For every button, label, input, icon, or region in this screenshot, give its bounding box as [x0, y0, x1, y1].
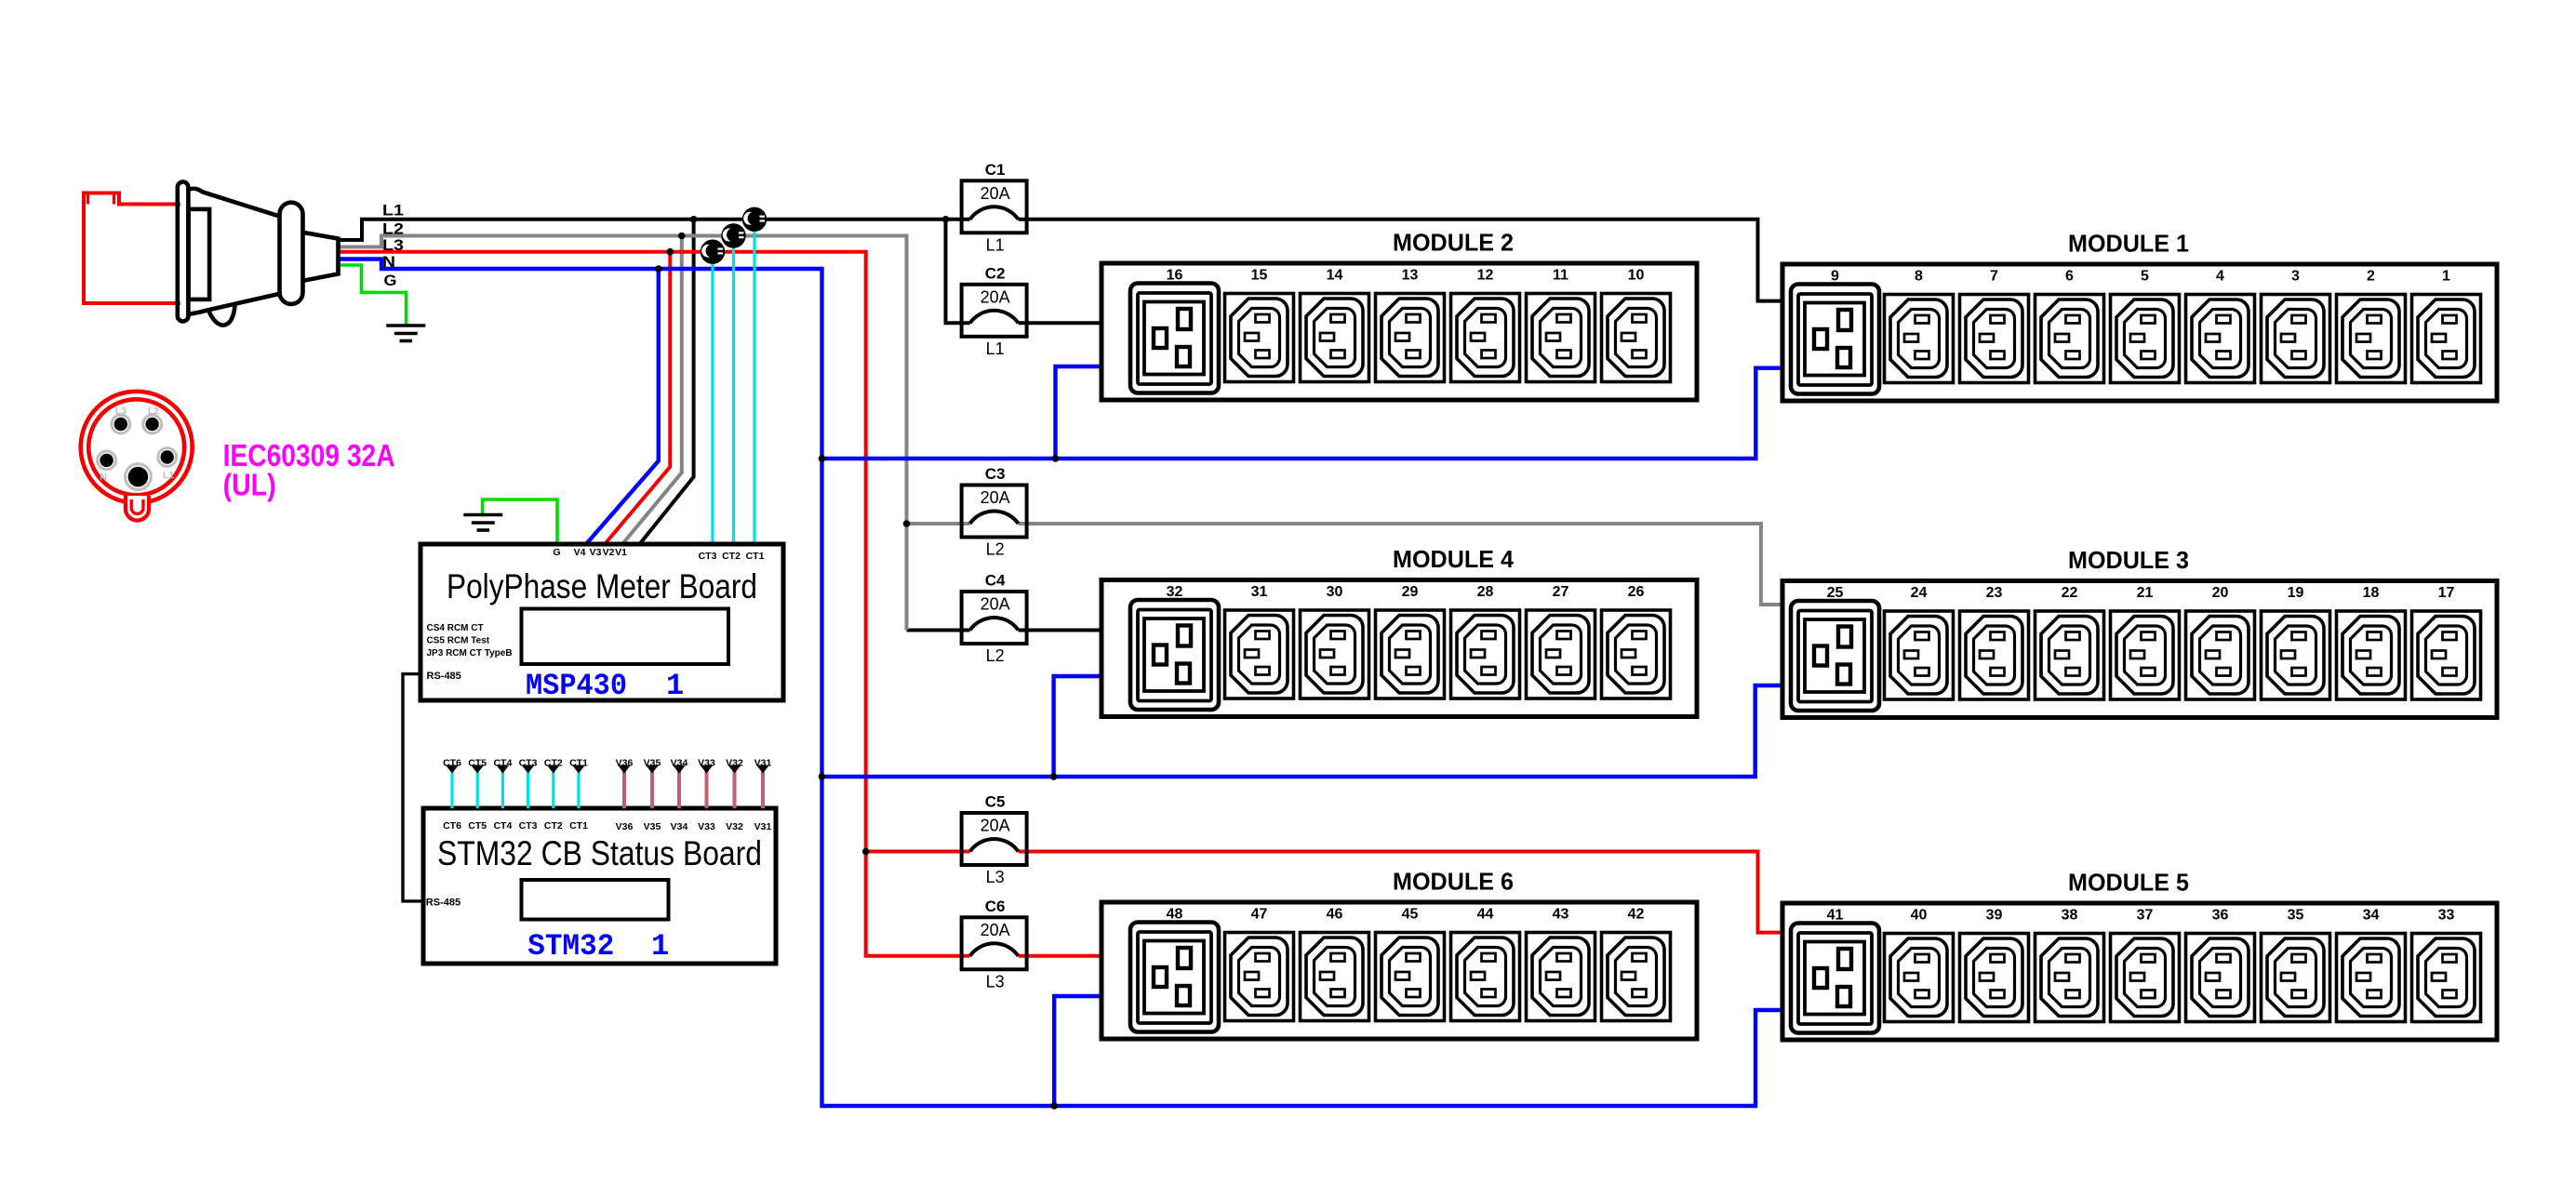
svg-text:11: 11: [1553, 268, 1568, 284]
svg-text:C4: C4: [985, 572, 1006, 590]
svg-text:MODULE 1: MODULE 1: [2068, 230, 2189, 258]
svg-text:V31: V31: [754, 821, 772, 832]
svg-text:MODULE 6: MODULE 6: [1393, 868, 1514, 896]
svg-text:MODULE 4: MODULE 4: [1393, 545, 1515, 573]
svg-text:32: 32: [1167, 584, 1183, 600]
svg-text:MODULE 5: MODULE 5: [2068, 869, 2189, 897]
svg-text:29: 29: [1402, 584, 1419, 600]
svg-text:47: 47: [1251, 907, 1268, 923]
svg-text:L2: L2: [382, 220, 404, 237]
svg-text:13: 13: [1402, 268, 1419, 284]
svg-text:CS4 RCM CT: CS4 RCM CT: [427, 623, 484, 633]
svg-text:12: 12: [1477, 268, 1494, 284]
svg-text:STM32: STM32: [527, 929, 614, 964]
svg-text:20A: 20A: [981, 488, 1010, 507]
svg-text:46: 46: [1327, 907, 1343, 923]
svg-text:V36: V36: [616, 821, 634, 832]
svg-text:L3: L3: [986, 972, 1005, 991]
svg-text:6: 6: [2065, 269, 2074, 285]
svg-text:20: 20: [2212, 585, 2229, 601]
svg-text:31: 31: [1251, 584, 1268, 600]
svg-text:39: 39: [1986, 908, 2003, 924]
svg-text:5: 5: [2141, 269, 2149, 285]
svg-text:20A: 20A: [981, 817, 1010, 835]
svg-text:10: 10: [1628, 268, 1645, 284]
svg-text:2: 2: [2367, 269, 2375, 285]
svg-text:L1: L1: [382, 202, 404, 220]
svg-text:JP3 RCM CT TypeB: JP3 RCM CT TypeB: [427, 648, 513, 659]
svg-text:MODULE 3: MODULE 3: [2068, 546, 2189, 574]
svg-text:18: 18: [2363, 585, 2380, 601]
svg-text:V35: V35: [644, 821, 661, 832]
svg-text:C6: C6: [985, 898, 1006, 915]
svg-text:(UL): (UL): [223, 468, 276, 502]
svg-text:16: 16: [1167, 268, 1183, 284]
svg-text:STM32 CB Status Board: STM32 CB Status Board: [437, 834, 762, 872]
svg-text:20A: 20A: [981, 595, 1010, 614]
svg-text:33: 33: [2438, 908, 2455, 924]
svg-text:L2: L2: [148, 406, 159, 417]
svg-text:C3: C3: [985, 465, 1006, 483]
svg-text:41: 41: [1827, 908, 1844, 924]
svg-text:L1: L1: [986, 235, 1005, 254]
svg-text:L2: L2: [986, 646, 1005, 665]
svg-text:40: 40: [1911, 908, 1928, 924]
svg-text:C2: C2: [985, 264, 1006, 282]
svg-text:L2: L2: [986, 540, 1005, 559]
svg-text:CT3: CT3: [699, 551, 717, 562]
svg-text:26: 26: [1628, 584, 1645, 600]
svg-text:9: 9: [1831, 269, 1839, 285]
svg-text:19: 19: [2288, 585, 2304, 601]
svg-text:C5: C5: [985, 793, 1006, 811]
svg-text:MODULE 2: MODULE 2: [1393, 229, 1514, 257]
svg-text:CT1: CT1: [569, 820, 588, 831]
svg-text:V34: V34: [671, 821, 688, 832]
svg-text:15: 15: [1251, 268, 1268, 284]
svg-text:25: 25: [1827, 585, 1844, 601]
svg-text:G: G: [384, 272, 397, 289]
svg-text:V2: V2: [603, 547, 615, 558]
svg-text:22: 22: [2062, 585, 2078, 601]
svg-text:43: 43: [1553, 907, 1569, 923]
svg-text:17: 17: [2438, 585, 2455, 601]
svg-text:L3: L3: [382, 236, 404, 254]
svg-text:45: 45: [1402, 907, 1419, 923]
svg-text:4: 4: [2216, 269, 2224, 285]
svg-text:20A: 20A: [981, 921, 1010, 939]
svg-text:35: 35: [2288, 908, 2304, 924]
svg-text:L1: L1: [986, 339, 1005, 358]
svg-text:30: 30: [1327, 584, 1343, 600]
svg-text:CT2: CT2: [544, 820, 563, 831]
svg-text:CT6: CT6: [443, 820, 461, 831]
svg-text:23: 23: [1986, 585, 2003, 601]
svg-text:C1: C1: [985, 161, 1006, 179]
svg-text:28: 28: [1477, 584, 1494, 600]
svg-text:RS-485: RS-485: [426, 898, 460, 909]
svg-text:N: N: [382, 253, 395, 271]
svg-text:1: 1: [651, 929, 669, 964]
svg-text:3: 3: [2291, 269, 2300, 285]
svg-text:42: 42: [1628, 907, 1645, 923]
svg-text:44: 44: [1477, 907, 1494, 923]
svg-text:7: 7: [1990, 269, 1998, 285]
svg-text:CT1: CT1: [746, 551, 765, 562]
svg-text:V1: V1: [615, 547, 627, 558]
svg-text:RS-485: RS-485: [427, 671, 461, 682]
svg-text:8: 8: [1915, 269, 1923, 285]
svg-text:CT3: CT3: [519, 820, 538, 831]
svg-text:20A: 20A: [981, 184, 1010, 203]
svg-text:G: G: [553, 547, 560, 558]
svg-text:CT4: CT4: [493, 820, 512, 831]
svg-text:CT5: CT5: [468, 820, 487, 831]
svg-text:1: 1: [2442, 269, 2450, 285]
svg-text:27: 27: [1553, 584, 1569, 600]
svg-text:34: 34: [2363, 908, 2380, 924]
svg-text:1: 1: [666, 669, 684, 703]
svg-text:37: 37: [2137, 908, 2154, 924]
svg-text:36: 36: [2212, 908, 2229, 924]
svg-text:V32: V32: [726, 821, 743, 832]
svg-text:L3: L3: [115, 406, 127, 417]
svg-text:V4: V4: [574, 547, 586, 558]
svg-text:38: 38: [2062, 908, 2078, 924]
svg-text:V33: V33: [698, 821, 715, 832]
svg-text:48: 48: [1167, 907, 1183, 923]
svg-text:20A: 20A: [981, 287, 1010, 306]
svg-text:CT2: CT2: [722, 551, 741, 562]
svg-text:14: 14: [1327, 268, 1343, 284]
svg-text:PolyPhase Meter Board: PolyPhase Meter Board: [447, 567, 757, 605]
svg-text:24: 24: [1911, 585, 1928, 601]
svg-text:MSP430: MSP430: [526, 669, 627, 703]
svg-text:V3: V3: [590, 547, 602, 558]
svg-text:L1: L1: [163, 470, 174, 481]
svg-text:CS5 RCM Test: CS5 RCM Test: [427, 636, 490, 646]
svg-text:L3: L3: [986, 868, 1005, 886]
svg-text:21: 21: [2137, 585, 2154, 601]
svg-text:N: N: [100, 472, 107, 483]
